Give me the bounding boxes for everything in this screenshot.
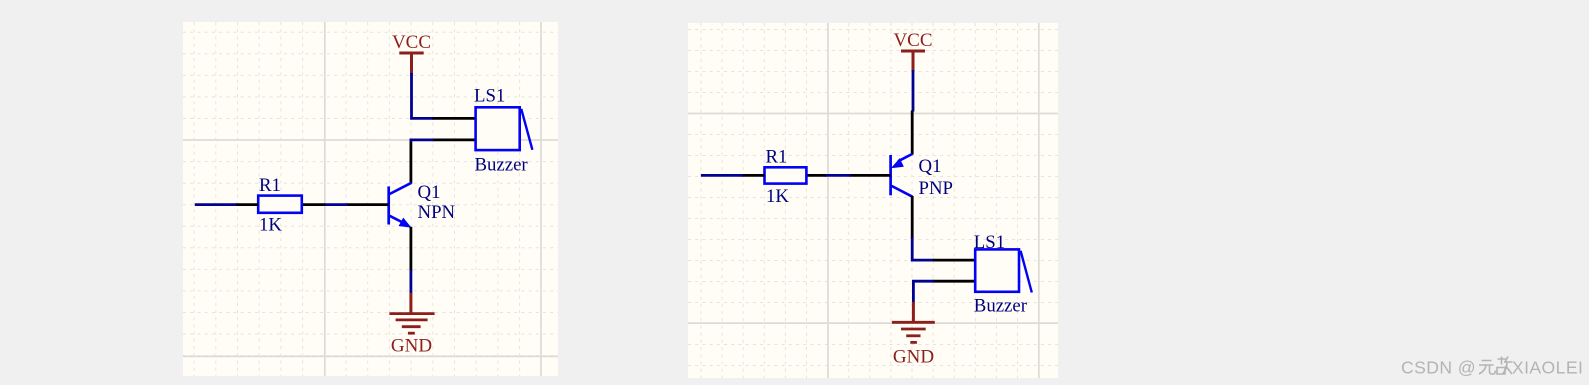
svg-text:LS1: LS1	[474, 86, 505, 107]
buzzer LS1 pin 2 (left)	[433, 138, 477, 141]
wire resistor to base (left)	[324, 203, 348, 206]
wire VCC to buzzer pin 1 (left)	[412, 73, 434, 118]
power port GND (right)	[892, 302, 935, 368]
wire buzzer pin 2 to collector (left)	[411, 140, 434, 142]
resistor R1 pin 1 (right)	[742, 174, 765, 177]
power port VCC (left)	[392, 32, 431, 75]
buzzer LS1 pin 2 (right)	[933, 280, 976, 283]
resistor R1 pin 2 (right)	[806, 174, 826, 177]
svg-text:CSDN @: CSDN @	[1401, 358, 1476, 378]
svg-text:LS1: LS1	[974, 232, 1005, 253]
svg-text:1K: 1K	[766, 186, 789, 207]
transistor Q1 emitter pin (left)	[409, 227, 412, 271]
svg-text:R1: R1	[259, 175, 281, 196]
buzzer LS1 pin 1 (right)	[933, 259, 976, 262]
transistor Q1 base pin (right)	[850, 174, 891, 177]
buzzer LS1 symbol (left)	[476, 107, 533, 150]
svg-text:R1: R1	[766, 147, 788, 168]
buzzer LS1 pin 1 (left)	[433, 117, 477, 120]
power port VCC (right)	[893, 30, 932, 72]
svg-text:GND: GND	[893, 346, 934, 367]
svg-text:XIAOLEI: XIAOLEI	[1512, 358, 1583, 378]
input wire (right)	[701, 174, 743, 177]
power port GND (left)	[389, 293, 434, 357]
transistor Q1 collector pin (left)	[409, 142, 412, 184]
wire emitter to GND (left)	[409, 270, 412, 294]
wire collector to buzzer pin 1 (right)	[912, 237, 934, 260]
watermark CSDN @wudi XIAOLEI	[1401, 357, 1583, 378]
transistor Q1 collector pin (right)	[911, 196, 914, 239]
svg-text:1K: 1K	[259, 215, 282, 236]
transistor Q1 emitter pin (right)	[911, 111, 914, 155]
resistor R1 pin 2 (left)	[302, 203, 326, 206]
svg-text:Buzzer: Buzzer	[475, 154, 529, 175]
resistor R1 symbol (right)	[765, 167, 807, 183]
transistor Q1 PNP symbol (right)	[891, 154, 913, 197]
wire VCC to emitter (right)	[912, 70, 915, 112]
wire buzzer pin 2 to GND (right)	[913, 281, 933, 303]
svg-text:Q1: Q1	[919, 156, 942, 177]
svg-text:PNP: PNP	[919, 178, 953, 199]
resistor R1 symbol (left)	[258, 196, 302, 213]
svg-text:GND: GND	[391, 335, 432, 356]
resistor R1 pin 1 (left)	[236, 203, 259, 206]
svg-text:Buzzer: Buzzer	[974, 296, 1028, 317]
svg-text:NPN: NPN	[418, 202, 456, 223]
wire resistor to base (right)	[825, 174, 851, 177]
buzzer LS1 symbol (right)	[975, 249, 1032, 292]
svg-text:VCC: VCC	[392, 32, 431, 53]
svg-text:Q1: Q1	[418, 182, 441, 203]
transistor Q1 base pin (left)	[347, 203, 389, 206]
transistor Q1 NPN symbol (left)	[389, 183, 412, 228]
input wire (left)	[195, 203, 237, 206]
svg-text:VCC: VCC	[893, 30, 932, 51]
